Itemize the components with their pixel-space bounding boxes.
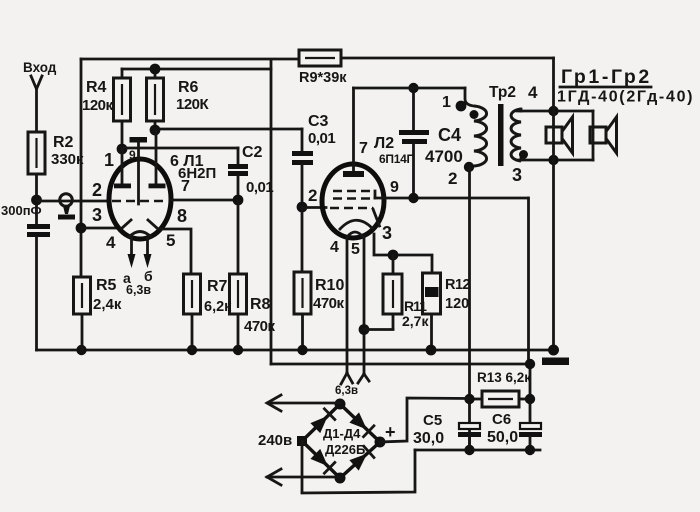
svg-text:6,2к: 6,2к — [204, 299, 232, 315]
tube Л2 anode — [343, 88, 364, 177]
svg-text:8: 8 — [177, 206, 187, 226]
svg-text:9: 9 — [390, 179, 399, 196]
label R4 120к — [82, 79, 114, 114]
wire bridge minus down — [301, 441, 304, 492]
wire pin8 cathode2 — [161, 229, 191, 274]
label Л2 6П14П — [374, 135, 415, 166]
wire cathode1 pin3 — [81, 227, 118, 230]
node bridge bottom — [335, 473, 346, 484]
svg-text:4: 4 — [106, 233, 116, 252]
svg-text:4700: 4700 — [425, 147, 463, 166]
diode Д3 — [310, 449, 334, 473]
capacitor 300пФ — [27, 227, 50, 351]
svg-text:470к: 470к — [313, 295, 345, 312]
tube Л1 pin9 shield bar — [130, 137, 148, 204]
label C3 0,01 — [308, 113, 335, 147]
svg-text:C2: C2 — [242, 144, 263, 161]
wire B+ vertical x271 — [270, 60, 273, 364]
svg-text:R2: R2 — [53, 134, 74, 151]
node Tp2 pin1 — [456, 101, 467, 112]
tube Л1 cathode strokes — [122, 220, 158, 229]
node Tp2 pin2 — [464, 162, 474, 172]
node cathode1 junction — [76, 223, 87, 234]
svg-text:240в: 240в — [258, 432, 292, 449]
wire screen pin9 y198 — [375, 197, 528, 200]
resistor R11 — [383, 255, 402, 329]
svg-text:R5: R5 — [96, 277, 117, 294]
diode bridge Д1-Д4 — [302, 404, 380, 478]
wire anode1 to C2 y148 — [122, 148, 238, 164]
diode Д2 — [349, 412, 374, 436]
wire R11 to heater — [364, 328, 393, 331]
resistor R8 — [230, 200, 247, 350]
label pins Л1 — [92, 148, 187, 252]
resistor R4 — [114, 69, 131, 149]
svg-text:7: 7 — [359, 140, 368, 157]
node Tp2 primary phasing dot — [470, 110, 479, 119]
svg-text:2,4к: 2,4к — [93, 296, 122, 313]
svg-text:3: 3 — [382, 223, 392, 243]
svg-text:2: 2 — [308, 186, 317, 205]
label Тр2 4 — [489, 83, 538, 102]
node bridge left — [297, 436, 307, 446]
node grid2 junction — [233, 195, 244, 206]
svg-text:R10: R10 — [315, 277, 344, 294]
label C6 50,0 — [487, 411, 518, 446]
node C6 bottom — [525, 445, 535, 455]
label R12 120 — [445, 277, 471, 312]
capacitor C4 — [399, 88, 429, 198]
svg-text:Вход: Вход — [23, 60, 57, 75]
label Л1 6Н2П — [170, 153, 216, 195]
node R6 top — [150, 64, 161, 75]
node R13 right — [525, 394, 535, 404]
svg-text:2: 2 — [92, 180, 102, 200]
svg-text:120к: 120к — [82, 97, 114, 114]
label R10 470к — [313, 277, 345, 312]
svg-text:Л2: Л2 — [374, 135, 394, 152]
svg-text:5: 5 — [351, 241, 360, 258]
speaker Гр1 — [546, 117, 573, 153]
diode Д1 — [310, 409, 334, 433]
label R11 2,7к — [402, 298, 429, 329]
label pins Л2 — [308, 140, 399, 258]
svg-text:б: б — [144, 268, 153, 284]
wire Tp2 pin2 down — [468, 167, 471, 450]
wire AC input bottom — [267, 469, 340, 485]
svg-text:7: 7 — [181, 178, 190, 195]
node R8 bottom — [233, 345, 243, 355]
node bridge top — [335, 399, 346, 410]
wire left frame vertical — [80, 59, 83, 277]
svg-text:330к: 330к — [51, 151, 84, 168]
label R8 470к — [244, 296, 276, 335]
node C5 bottom — [464, 445, 474, 455]
label 6,3в bottom — [335, 385, 358, 397]
capacitor C5 — [458, 423, 481, 450]
wire ground bus — [37, 349, 554, 352]
wire speaker loop — [517, 111, 593, 160]
wire anode2 row y129 — [156, 128, 302, 131]
tube Л2 cathode arc — [340, 220, 372, 237]
svg-text:Гр1-Гр2: Гр1-Гр2 — [561, 66, 652, 88]
node Вход label — [23, 60, 57, 75]
speaker Гр2 — [590, 117, 617, 153]
svg-text:R12: R12 — [445, 277, 471, 293]
node R13 left — [464, 394, 474, 404]
svg-text:С4: С4 — [438, 125, 461, 145]
diode Д4 — [349, 446, 374, 470]
svg-text:C5: C5 — [423, 412, 442, 429]
svg-text:50,0: 50,0 — [487, 429, 518, 446]
wire heater pin5 — [358, 237, 369, 383]
label R9*39к — [299, 70, 347, 86]
node speaker top — [548, 106, 558, 116]
wire R4 R6 tops — [122, 68, 271, 71]
svg-text:C3: C3 — [308, 113, 329, 130]
label plus — [385, 422, 396, 442]
node R5 bottom — [76, 345, 86, 355]
wire AC input top — [267, 395, 340, 411]
node bus right end — [548, 345, 559, 356]
svg-text:R8: R8 — [250, 296, 271, 313]
wire top rail right — [341, 57, 554, 60]
node bridge right — [375, 437, 386, 448]
node heater R11 junction — [359, 324, 370, 335]
wire bridge plus — [380, 398, 469, 442]
svg-text:R13 6,2к: R13 6,2к — [477, 370, 531, 385]
node R7 bottom — [187, 345, 197, 355]
svg-text:6П14П: 6П14П — [379, 152, 415, 166]
tube Л1 envelope — [109, 159, 171, 239]
tube Л2 grids dashed — [330, 191, 375, 208]
transformer Tp2 primary — [469, 106, 487, 167]
wire cathode Л2 pin3 — [374, 234, 432, 273]
wire B+ feed y364 — [271, 363, 531, 366]
svg-text:R4: R4 — [86, 79, 107, 96]
svg-text:0,01: 0,01 — [308, 130, 335, 147]
svg-text:3: 3 — [512, 165, 522, 185]
node grid Л2 junction — [297, 202, 308, 213]
node speaker bottom — [548, 155, 558, 165]
wire heater pin4 — [341, 237, 353, 384]
label а б 6,3в — [123, 268, 153, 297]
label 240в — [258, 432, 292, 449]
transformer Tp2 core — [498, 104, 504, 166]
wire screen drop x528 — [529, 198, 531, 424]
resistor R9 — [299, 50, 341, 66]
svg-text:120: 120 — [445, 296, 469, 312]
tube Л1 heater arrows — [128, 237, 152, 268]
wire grid2 y200 — [171, 199, 238, 202]
svg-text:1ГД-40(2Гд-40): 1ГД-40(2Гд-40) — [557, 89, 694, 106]
svg-text:Д1-Д4: Д1-Д4 — [323, 426, 361, 441]
label Д1-Д4 Д226Б — [323, 426, 365, 457]
svg-text:3: 3 — [92, 205, 102, 225]
tube Л1 anode 2 — [149, 130, 166, 188]
svg-text:1: 1 — [104, 150, 114, 170]
label R13 6,2к — [477, 370, 531, 385]
transformer Tp2 secondary — [511, 109, 521, 161]
label R5 2,4к — [93, 277, 122, 313]
label C5 30,0 — [413, 412, 444, 447]
wire top rail left — [81, 58, 299, 61]
node R11 top — [388, 250, 399, 261]
node Tp2 secondary phasing dot — [519, 150, 528, 159]
svg-text:+: + — [385, 422, 396, 442]
resistor R5 — [74, 277, 91, 350]
label C2 0,01 — [242, 144, 273, 196]
wire minus rail — [302, 450, 540, 493]
tube Л1 grid dashed — [112, 200, 168, 202]
svg-text:6,3в: 6,3в — [335, 385, 358, 397]
node C4 top — [408, 83, 418, 93]
label pin1 pin2 pin3 — [442, 94, 522, 188]
svg-text:4: 4 — [330, 239, 339, 256]
svg-text:30,0: 30,0 — [413, 430, 444, 447]
svg-text:120К: 120К — [176, 96, 210, 113]
svg-text:R7: R7 — [207, 278, 228, 295]
label R7 6,2к — [204, 278, 232, 315]
capacitor C2 — [228, 167, 248, 201]
svg-text:4: 4 — [528, 83, 538, 102]
svg-text:Д226Б: Д226Б — [325, 442, 365, 457]
tube Л1 anode 1 — [114, 149, 131, 188]
node R10 bottom — [297, 345, 307, 355]
node B+ junction — [525, 359, 535, 369]
resistor R2 — [28, 132, 45, 224]
resistor R12 — [423, 273, 441, 350]
wire anode to Tp2 y88 — [354, 88, 475, 106]
svg-text:C6: C6 — [492, 411, 511, 428]
svg-text:2: 2 — [448, 169, 457, 188]
svg-text:R9*39к: R9*39к — [299, 70, 347, 86]
resistor R7 — [184, 274, 201, 350]
input antenna terminal — [31, 76, 42, 131]
capacitor C6 — [519, 423, 542, 450]
svg-text:9: 9 — [129, 148, 136, 162]
svg-text:470к: 470к — [244, 318, 276, 335]
resistor R10 — [294, 207, 311, 350]
node R6 bottom — [150, 125, 161, 136]
capacitor C3 — [292, 129, 313, 207]
wire right vertical x554 — [552, 58, 555, 352]
svg-text:0,01: 0,01 — [246, 179, 273, 196]
svg-text:6,3в: 6,3в — [126, 283, 151, 297]
resistor R6 — [147, 69, 164, 130]
tube Л2 envelope — [322, 164, 384, 238]
svg-text:R6: R6 — [178, 79, 199, 96]
ground symbol — [542, 358, 569, 366]
label Гр1-Гр2 — [557, 66, 694, 106]
label R2 330к — [51, 134, 84, 168]
label 300пФ — [1, 203, 42, 218]
svg-text:5: 5 — [166, 231, 175, 250]
tube Л1 heater arc — [129, 232, 151, 238]
node input junction — [31, 195, 42, 206]
label R6 120К — [176, 79, 210, 113]
svg-text:Тр2: Тр2 — [489, 84, 516, 101]
label C4 4700 — [425, 125, 463, 166]
node anode1 junction — [117, 144, 128, 155]
tube Л2 suppressor bend — [373, 209, 380, 226]
jack socket symbol — [58, 194, 75, 220]
resistor R13 — [470, 391, 531, 407]
wire grid Л2 — [302, 206, 326, 209]
svg-text:1: 1 — [442, 94, 451, 111]
wire grid1 — [37, 200, 110, 203]
node R12 bottom — [426, 345, 437, 356]
node C4 bottom — [408, 193, 418, 203]
